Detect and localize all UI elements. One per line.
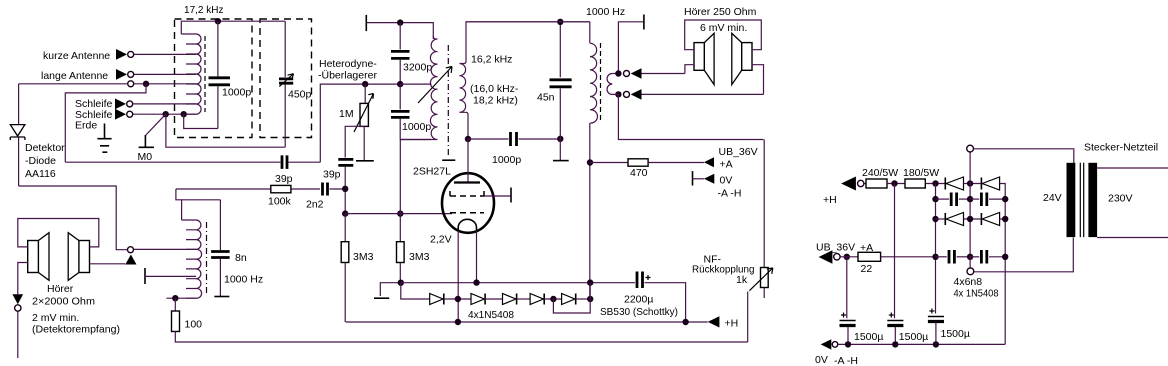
bridge left column <box>935 184 937 314</box>
svg-text:AA116: AA116 <box>25 168 56 180</box>
node row2 mid <box>967 196 973 202</box>
svg-text:22: 22 <box>861 263 873 275</box>
capacitor 1500u 2 <box>887 320 903 322</box>
svg-text:-Diode: -Diode <box>25 155 56 167</box>
node filament right leg <box>473 279 479 285</box>
node 45n top <box>557 19 563 25</box>
resistor 22 <box>858 252 881 261</box>
speaker Hoerer left <box>28 241 39 273</box>
wire 0V rail <box>838 343 1005 345</box>
svg-text:180/5W: 180/5W <box>903 167 939 179</box>
speaker Hoerer right <box>79 241 90 273</box>
resistor 100k <box>271 185 291 192</box>
svg-text:-Überlagerer: -Überlagerer <box>318 70 377 82</box>
node junction detector row <box>143 81 149 87</box>
node dropper junction <box>891 180 897 186</box>
terminal lange Antenne <box>116 69 127 80</box>
wire M0 net up to heterodyne <box>320 84 400 162</box>
node winding bottom <box>172 295 178 301</box>
cathode filament V1 <box>458 219 476 231</box>
node row3 right <box>1002 216 1008 222</box>
wire speaker 250 left lower stub <box>685 65 694 74</box>
bridge mid column <box>969 184 971 258</box>
wire 100k column to transformer top <box>176 189 221 200</box>
arrow NF pot wiper <box>749 268 772 291</box>
svg-text:45n: 45n <box>537 92 555 104</box>
svg-text:+H: +H <box>823 194 837 206</box>
node row3 left <box>932 216 938 222</box>
svg-text:24V: 24V <box>1043 192 1062 204</box>
svg-text:1000p: 1000p <box>402 121 431 133</box>
svg-text:Erde: Erde <box>75 120 97 132</box>
wire output transformer bottom column <box>589 123 591 299</box>
svg-text:450p: 450p <box>288 89 312 101</box>
svg-text:1500µ: 1500µ <box>941 328 970 340</box>
svg-text:+A: +A <box>720 159 733 171</box>
terminal UB_36V right <box>819 250 833 263</box>
node 0V c3 <box>933 341 939 347</box>
svg-text:1500µ: 1500µ <box>899 331 928 343</box>
node grid right <box>397 210 403 216</box>
node cathode bottom rail <box>455 319 461 325</box>
wire SB530 bypass <box>553 283 590 313</box>
wire 230V top <box>1097 167 1168 169</box>
diode D5 SB530 <box>562 294 575 305</box>
potentiometer 1M <box>364 84 366 103</box>
resistor 3M3 right <box>399 214 401 242</box>
node bridge row1 left <box>932 180 938 186</box>
wire heater bottom rail <box>346 321 708 323</box>
node pot 1M top <box>362 81 368 87</box>
capacitor 6n8 b <box>970 198 979 200</box>
wire detector row <box>19 83 196 85</box>
wire het tap <box>400 83 431 85</box>
plug headphone out top <box>631 68 642 79</box>
svg-text:100: 100 <box>185 319 203 331</box>
core T1 <box>206 222 208 296</box>
terminal bridge AC bottom <box>969 257 971 268</box>
node 45n bottom <box>557 136 563 142</box>
grid g2 V1 <box>450 191 484 196</box>
diode bridge A1 <box>944 178 946 190</box>
svg-text:39p: 39p <box>323 169 341 181</box>
terminal 0V <box>692 171 694 185</box>
svg-text:2200µ: 2200µ <box>624 294 653 306</box>
wire tank bottom <box>184 114 218 128</box>
svg-text:39p: 39p <box>275 173 293 185</box>
svg-text:17,2 kHz: 17,2 kHz <box>184 4 224 16</box>
wire g2 lead <box>484 195 511 197</box>
diode bridge B2 <box>980 213 982 225</box>
wire coil top to tank top <box>181 21 285 34</box>
transformer T2 secondary <box>607 74 612 95</box>
socket headphone out top <box>624 71 630 77</box>
terminal +H right <box>841 177 856 191</box>
svg-text:2,2V: 2,2V <box>430 234 452 246</box>
capacitor 6n8 c <box>936 256 947 258</box>
speaker 250 Ohm left <box>694 43 704 71</box>
node heterodyne rail <box>397 81 403 87</box>
svg-text:Hörer: Hörer <box>47 283 74 295</box>
svg-text:(Detektorempfang): (Detektorempfang) <box>32 324 120 336</box>
wire smoothing column 1 <box>846 257 848 319</box>
dashed box tank circuit <box>175 19 253 138</box>
svg-text:(16,0 kHz-: (16,0 kHz- <box>470 83 519 95</box>
node 2200u bottom rail <box>682 319 688 325</box>
node 3200p rail top <box>397 19 403 25</box>
resistor 100 <box>174 298 176 311</box>
capacitor 6n8 d <box>970 256 979 258</box>
wire Schleife 1 to coil tap <box>133 103 196 105</box>
grid g1 V1 <box>450 212 484 214</box>
wire filament left leg <box>457 231 459 322</box>
svg-text:-A -H: -A -H <box>718 188 742 200</box>
svg-text:lange Antenne: lange Antenne <box>41 70 108 82</box>
svg-text:2n2: 2n2 <box>306 199 324 211</box>
wire kurze Antenne to coil tap <box>134 53 196 55</box>
svg-text:1000 Hz: 1000 Hz <box>224 274 263 286</box>
svg-text:4x6n8: 4x6n8 <box>954 276 983 288</box>
core T2 <box>600 43 602 123</box>
socket headphone out bottom <box>624 91 630 97</box>
capacitor 1500u 1 <box>840 320 856 322</box>
svg-text:16,2 kHz: 16,2 kHz <box>471 54 512 66</box>
wire 45n column <box>559 22 561 161</box>
wire NF wiper to feedback rail <box>747 292 749 343</box>
wire lange Antenne to coil tap <box>134 73 196 75</box>
node 0V c1 <box>845 341 851 347</box>
wire plug to speaker <box>90 263 126 265</box>
transformer T1 primary winding <box>182 220 202 298</box>
diode D4 1N5408 <box>530 294 543 305</box>
resistor 180/5W <box>905 179 925 188</box>
arrow 1M adjust <box>354 94 374 133</box>
ground Erde <box>98 124 112 153</box>
capacitor 8n <box>219 200 221 250</box>
svg-text:1000p: 1000p <box>492 154 521 166</box>
svg-text:470: 470 <box>630 167 648 179</box>
core osc <box>447 45 449 158</box>
svg-text:kurze Antenne: kurze Antenne <box>43 50 110 62</box>
capacitor 6n8 a <box>936 198 950 200</box>
svg-text:3M3: 3M3 <box>353 251 374 263</box>
svg-text:100k: 100k <box>268 196 292 208</box>
node cathode to diode chain <box>455 296 461 302</box>
node row4 right <box>1002 254 1008 260</box>
node 470 row <box>587 159 593 165</box>
node 0V c2 <box>892 341 898 347</box>
core mains transformer <box>1080 163 1083 237</box>
svg-text:Detektor: Detektor <box>25 142 65 154</box>
arrow osc tuning <box>418 67 452 104</box>
wire bridge AC top <box>969 152 971 184</box>
svg-text:Hörer 250 Ohm: Hörer 250 Ohm <box>684 6 757 18</box>
node grid left <box>342 210 348 216</box>
svg-text:1k: 1k <box>736 274 748 286</box>
capacitor 45n <box>550 80 572 87</box>
plug headphone out bottom <box>631 89 642 100</box>
node 22 row left <box>844 254 850 260</box>
tube V1 envelope <box>442 173 494 233</box>
diode D1 1N5408 <box>430 294 443 305</box>
diode bridge A2 <box>980 178 982 190</box>
node T2 secondary bottom <box>615 91 621 97</box>
capacitor 39p series (M0 net) <box>282 155 287 169</box>
wire Schleife 2 / coil bottom row <box>133 113 196 115</box>
terminal +A anode supply <box>704 157 714 167</box>
svg-text:240/5W: 240/5W <box>862 167 898 179</box>
resistor 470 <box>590 162 628 164</box>
node row4 left <box>932 254 938 260</box>
plug headphone <box>125 255 136 265</box>
svg-text:1000 Hz: 1000 Hz <box>586 6 625 18</box>
node row3 mid <box>967 216 973 222</box>
wire 230V bottom <box>1097 237 1168 239</box>
svg-text:6 mV min.: 6 mV min. <box>700 22 747 34</box>
capacitor 2n2 <box>323 183 328 196</box>
wire osc tank to grid <box>399 140 401 214</box>
wire 450p bottom to M0 node <box>166 114 285 147</box>
wire headphone bottom <box>642 93 764 95</box>
terminal Schleife 1 <box>115 99 126 110</box>
svg-text:4x1N5408: 4x1N5408 <box>468 309 514 321</box>
capacitor 1000p anode coupling <box>468 138 509 140</box>
wire T2 secondary top lead <box>612 22 644 74</box>
wire 24V bottom lead <box>974 238 1074 272</box>
node row4 mid <box>967 254 973 260</box>
diode bridge B1 <box>936 218 945 220</box>
wire M0 net long <box>65 161 320 163</box>
node junction coil bottom <box>181 111 187 117</box>
coil osc primary <box>400 36 437 140</box>
terminal Schleife 2 <box>115 109 126 120</box>
svg-text:1M: 1M <box>339 108 354 120</box>
wire T2 secondary bottom lead down <box>612 94 763 139</box>
transformer T2 primary <box>590 22 598 123</box>
svg-text:8n: 8n <box>235 252 247 264</box>
wire 24V top lead <box>974 149 1074 164</box>
stub tap open end <box>144 268 146 284</box>
capacitor 3200p <box>399 23 401 50</box>
node anode row <box>465 136 471 142</box>
wire heterodyne top rail <box>400 23 433 39</box>
node row2 right <box>1002 196 1008 202</box>
node D4-D5 <box>550 296 556 302</box>
wire osc secondary bottom to anode <box>460 112 469 139</box>
terminal headphone bottom left <box>12 294 23 304</box>
resistor 240/5W <box>864 183 866 185</box>
wire filament right leg <box>476 231 478 283</box>
terminal kurze Antenne <box>116 49 127 60</box>
wire smoothing column 2 <box>894 184 896 319</box>
wire heater upper rail <box>401 282 635 284</box>
dashed box 450p <box>260 19 312 138</box>
terminal detector row (open circle) <box>128 81 134 87</box>
wire speaker 250 right lower stub <box>752 65 764 95</box>
wire osc secondary top <box>460 22 590 64</box>
node heater rail 3M3 <box>398 280 404 286</box>
svg-text:2×2000 Ohm: 2×2000 Ohm <box>32 296 95 308</box>
coil osc secondary 16,2kHz <box>460 64 466 113</box>
resistor 3M3 left <box>344 214 346 242</box>
coil L1 17,2kHz winding <box>181 34 201 114</box>
terminal +H left <box>708 316 720 327</box>
svg-text:2 mV min.: 2 mV min. <box>32 312 79 324</box>
svg-text:1500µ: 1500µ <box>854 331 883 343</box>
node heater rail to diode column <box>587 279 593 285</box>
svg-text:230V: 230V <box>1108 193 1133 205</box>
svg-text:18,2 kHz): 18,2 kHz) <box>473 95 518 107</box>
wire diode chain start <box>401 283 430 299</box>
wire winding bottom <box>166 297 196 299</box>
svg-text:4x 1N5408: 4x 1N5408 <box>954 288 999 300</box>
wire grid row <box>345 213 452 215</box>
wire speaker lower stub left <box>18 263 28 295</box>
diode D3 1N5408 <box>503 294 516 305</box>
svg-text:3200p: 3200p <box>403 62 432 74</box>
speaker 250 Ohm right <box>742 43 752 71</box>
node diode chain end <box>587 296 593 302</box>
svg-text:SB530 (Schottky): SB530 (Schottky) <box>600 306 678 318</box>
wire speaker series link <box>18 219 99 247</box>
svg-text:-A -H: -A -H <box>834 355 858 366</box>
svg-text:2SH27L: 2SH27L <box>413 166 451 178</box>
capacitor 39p grid <box>338 159 353 165</box>
potentiometer NF 1k <box>763 140 765 268</box>
transformer mains 24V winding bar <box>1067 163 1076 237</box>
wire detector output to headphone socket <box>19 186 128 250</box>
wire from detector row node down to M0 net <box>65 84 146 162</box>
node tank top <box>215 18 221 24</box>
diode D2 1N5408 <box>471 294 484 305</box>
arrow 450p adjust <box>279 74 293 87</box>
wire winding top lead <box>181 200 183 220</box>
wire anode supply top <box>466 21 590 23</box>
svg-text:M0: M0 <box>138 151 153 163</box>
wire osc tank bottom <box>400 139 431 141</box>
core L1 <box>204 36 206 112</box>
node row2 left <box>932 196 938 202</box>
capacitor 450p variable <box>284 21 286 77</box>
capacitor 1000p osc <box>399 84 401 109</box>
capacitor 1500u 3 <box>928 316 944 318</box>
capacitor 1000p tank <box>217 21 219 76</box>
wire headphone top <box>642 73 685 75</box>
node T2 secondary top <box>615 70 621 76</box>
svg-text:UB_36V: UB_36V <box>719 146 758 158</box>
svg-text:0V: 0V <box>720 175 733 187</box>
socket headphone <box>128 247 134 253</box>
transformer mains 230V winding bar <box>1088 163 1097 237</box>
wire 100k row <box>176 188 345 190</box>
capacitor 2200u <box>637 272 643 289</box>
svg-text:UB_36V: UB_36V <box>816 242 855 254</box>
svg-text:0V: 0V <box>815 354 828 366</box>
svg-text:Stecker-Netzteil: Stecker-Netzteil <box>1084 142 1158 154</box>
diode AA116 <box>18 84 20 124</box>
node bridge row1 mid <box>967 180 973 186</box>
node grid coupling <box>342 186 348 192</box>
terminal 0V right <box>821 339 832 349</box>
ground stub heater rail left <box>380 283 401 296</box>
svg-text:3M3: 3M3 <box>409 251 430 263</box>
wire tap to socket <box>134 248 197 250</box>
wire speaker 250 series link <box>685 20 762 50</box>
svg-text:+H: +H <box>725 318 739 330</box>
wire pot bottom to 39p2 <box>345 126 364 157</box>
svg-text:1000p: 1000p <box>222 87 251 99</box>
anode V1 <box>467 139 469 182</box>
switch M0 blade <box>146 114 166 135</box>
switch M0 contact <box>139 135 154 147</box>
node junction M0 branch <box>163 111 169 117</box>
svg-text:Heterodyne-: Heterodyne- <box>319 58 377 70</box>
